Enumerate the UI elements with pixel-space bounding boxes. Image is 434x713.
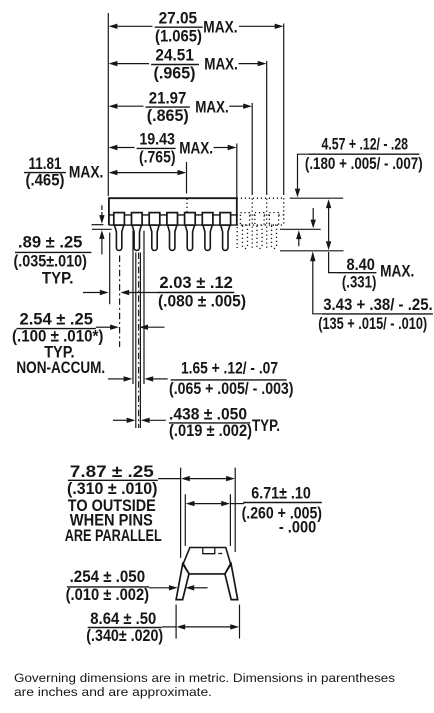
dimension text 7.87 block — [65, 462, 162, 545]
svg-text:(.965): (.965) — [154, 64, 196, 83]
svg-text:8.40: 8.40 — [347, 255, 375, 274]
dimension 21.97 (.865) MAX. — [109, 88, 252, 125]
svg-text:- .000: - .000 — [279, 517, 316, 536]
extension line 19.43 / body right edge above body — [236, 144, 238, 198]
svg-text:(.340± .020): (.340± .020) — [86, 626, 163, 645]
dimension row arrows at y=293 — [83, 290, 156, 295]
extension line 21.97 dim — [251, 103, 253, 248]
extension line 24.51 dim — [266, 61, 268, 248]
extension line 27.05 dim / dotted body right edge — [283, 24, 285, 196]
svg-text:6.71± .10: 6.71± .10 — [251, 483, 310, 502]
dimension row arrows at y=378.9 — [108, 376, 168, 381]
dimension text 6.71 block — [242, 483, 322, 536]
body mold step line — [109, 214, 237, 216]
dotted body extension right edge — [283, 198, 285, 225]
svg-text:(.865): (.865) — [147, 106, 189, 125]
dimension text 8.40 (.331) MAX. — [336, 255, 414, 292]
dimension row arrows at y=326.6 — [96, 325, 165, 330]
pin 2 lead — [132, 226, 141, 251]
side view: 6.71 extension lines — [185, 494, 230, 546]
seating plane line middle — [280, 228, 321, 230]
side view small dash mark — [218, 553, 222, 555]
svg-text:(.465): (.465) — [26, 170, 65, 189]
side view body (hexagonal cross-section) — [183, 548, 230, 574]
svg-text:(135 + .015/ - .010): (135 + .015/ - .010) — [318, 314, 427, 333]
svg-text:MAX.: MAX. — [380, 261, 414, 280]
side view: 8.64 extension lines — [176, 605, 239, 639]
dotted body mold step segments — [237, 214, 284, 216]
dotted pin 9 lead — [257, 226, 262, 249]
pin 2 shoulder — [132, 213, 143, 226]
pin 3 lead — [150, 226, 159, 251]
dimension text 1.65 + .12/ - .07 (.065 + .005/ - .003) — [169, 359, 294, 399]
dotted body band bottom — [237, 224, 284, 226]
dimension 11.81 (.465) MAX. — [24, 154, 186, 189]
dimension row arrows at y=419.2 — [113, 418, 166, 423]
svg-text:3.43 + .38/ - .25.: 3.43 + .38/ - .25. — [323, 295, 433, 314]
pin 1 centerline (dash-dot) — [119, 256, 121, 348]
svg-text:(.331): (.331) — [342, 272, 377, 291]
dotted pin 9 shoulder — [255, 213, 264, 226]
dotted pin 10 shoulder — [269, 213, 278, 226]
pin 1 lead — [115, 226, 124, 251]
pin 5 lead — [185, 226, 194, 251]
body band bottom line — [109, 224, 237, 226]
pin 7 lead — [221, 226, 230, 251]
svg-text:(1.065): (1.065) — [155, 26, 202, 45]
dimension text .89 +- .25 (.035+-.010) TYP. — [14, 233, 92, 288]
pin 4 shoulder — [167, 213, 178, 226]
svg-text:2.03 ± .12: 2.03 ± .12 — [159, 273, 233, 292]
svg-text:(.080 ± .005): (.080 ± .005) — [158, 292, 246, 311]
pin 6 lead — [203, 226, 212, 251]
pin 3 shoulder — [149, 213, 160, 226]
svg-text:(.035±.010): (.035±.010) — [14, 251, 87, 270]
svg-text:TYP.: TYP. — [42, 269, 74, 288]
dotted pin 10 lead — [272, 226, 277, 249]
svg-text:MAX.: MAX. — [179, 139, 213, 158]
svg-text:NON-ACCUM.: NON-ACCUM. — [16, 358, 105, 377]
dimension 7.87 (.310) line — [158, 476, 235, 481]
side view right leg — [225, 564, 238, 600]
pin 2 centerline (dash-dot) — [138, 253, 140, 429]
side view notch on top — [203, 548, 215, 554]
svg-text:MAX.: MAX. — [204, 55, 238, 74]
dotted extension below solid body right edge — [236, 227, 238, 248]
svg-text:(.765): (.765) — [139, 148, 176, 167]
dimension 19.43 (.765) MAX. — [109, 130, 237, 167]
dimension 4.57 (.180) leader and arrows — [295, 154, 308, 246]
svg-text:MAX.: MAX. — [195, 97, 229, 116]
svg-text:Governing dimensions are in me: Governing dimensions are in metric. Dime… — [14, 671, 395, 685]
pin 7 shoulder — [220, 213, 231, 226]
svg-text:ARE PARALLEL: ARE PARALLEL — [65, 526, 162, 545]
pin 6 shoulder — [202, 213, 213, 226]
lead tip reference line bottom — [280, 250, 344, 252]
dotted pin 8 shoulder — [240, 213, 249, 226]
svg-text:.254 ± .050: .254 ± .050 — [70, 567, 146, 586]
extension line for 11.81 at x=186.5 — [186, 162, 189, 212]
dimension .254 (.010) leader and arrows — [149, 585, 208, 590]
svg-text:(.010 ± .002): (.010 ± .002) — [66, 585, 150, 604]
extension line below body left edge — [109, 233, 111, 305]
pin 5 shoulder — [185, 213, 196, 226]
svg-text:27.05: 27.05 — [159, 8, 198, 27]
note: governing dimensions text — [14, 671, 395, 699]
svg-text:21.97: 21.97 — [149, 88, 187, 107]
pin 4 lead — [168, 226, 177, 251]
dimension 8.40 (.331) MAX arrows — [326, 199, 337, 272]
dotted pin 8 lead — [243, 226, 248, 249]
side view: 7.87 extension lines — [181, 468, 236, 558]
dimension 8.64 (.340) line — [162, 624, 239, 629]
svg-text:(.065 + .005/ - .003): (.065 + .005/ - .003) — [169, 379, 294, 398]
pin 2 outer extension lines — [133, 231, 144, 384]
seating reference line top (body top extended) — [290, 197, 344, 199]
dimension text 2.03 +- .12 (.080 +- .005) — [157, 273, 247, 310]
svg-text:MAX.: MAX. — [203, 17, 237, 36]
dimension text 3.43 + .38/ - .25. (135 + .015/ - .010) — [318, 295, 433, 333]
dimension text .254 block — [66, 567, 150, 604]
svg-text:19.43: 19.43 — [139, 130, 175, 149]
svg-text:(.019 ± .002): (.019 ± .002) — [169, 421, 252, 440]
svg-text:TYP.: TYP. — [252, 416, 280, 435]
dimension .89 (.035) TYP arrows and ticks — [92, 205, 112, 254]
svg-text:(.180 + .005/ - .007): (.180 + .005/ - .007) — [305, 154, 423, 173]
dotted body extension top edge — [237, 197, 284, 199]
svg-text:.89 ± .25: .89 ± .25 — [18, 233, 82, 252]
package body outline (solid portion) — [109, 198, 237, 225]
extension line body-left edge (x=108.3) — [107, 13, 109, 196]
svg-text:MAX.: MAX. — [69, 163, 104, 182]
pin 2 lead-edge extension lines — [136, 253, 141, 429]
svg-text:4.57 + .12/ - .28: 4.57 + .12/ - .28 — [322, 134, 409, 153]
pin 1 shoulder — [114, 213, 125, 226]
dimension 27.05 (1.065) MAX. — [109, 8, 284, 45]
dimension 24.51 (.965) MAX. — [109, 46, 267, 83]
svg-text:are inches and are approximate: are inches and are approximate. — [14, 685, 212, 699]
dimension text 8.64 block — [86, 609, 163, 645]
svg-text:1.65 + .12/ - .07: 1.65 + .12/ - .07 — [181, 359, 278, 378]
dimension 3.43 (.135) arrows — [310, 208, 321, 314]
dimension 6.71 (.260) line — [186, 501, 245, 506]
svg-text:24.51: 24.51 — [155, 46, 194, 65]
dimension text 2.54 +- .25 (.100 +- .010*) TYP. NON-ACCUM. — [12, 310, 105, 377]
dimension text 4.57 + .12/ - .28 (.180 + .005/ - .007) — [305, 134, 423, 173]
side view left leg — [176, 564, 189, 600]
dimension text .438 +- .050 (.019 +- .002) TYP. — [169, 404, 280, 439]
